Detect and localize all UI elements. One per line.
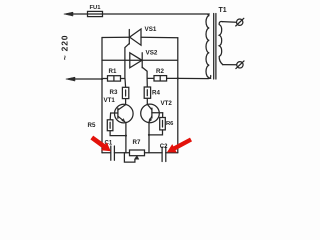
node R2 / primary junction bbox=[177, 77, 179, 79]
transformer T1 secondary winding bbox=[219, 21, 223, 64]
red pointer arrow at C1 bbox=[90, 136, 110, 152]
capacitor C1 bbox=[111, 146, 115, 160]
svg-text:VS2: VS2 bbox=[146, 50, 158, 57]
svg-text:T1: T1 bbox=[219, 7, 227, 14]
wire bottom left bus to C1 bbox=[102, 152, 111, 154]
svg-text:R2: R2 bbox=[156, 68, 164, 75]
node left bus mains junction bbox=[101, 78, 103, 80]
svg-text:VS1: VS1 bbox=[145, 26, 157, 33]
svg-text:R3: R3 bbox=[110, 89, 118, 96]
fuse FU1 bbox=[88, 11, 103, 16]
svg-text:VT2: VT2 bbox=[161, 100, 173, 107]
resistor R5 bbox=[107, 120, 126, 136]
wire VS1 anode/cathode rail bbox=[102, 36, 178, 39]
thyristor VS1 bbox=[125, 29, 141, 79]
node arrow to mains (bottom) bbox=[66, 77, 75, 81]
svg-text:R1: R1 bbox=[109, 68, 117, 75]
node arrow to mains (top) bbox=[64, 12, 73, 16]
wire right bus bbox=[177, 38, 179, 153]
potentiometer R7 bbox=[124, 150, 144, 162]
node output terminal top bbox=[236, 18, 244, 26]
thyristor VS2 bbox=[130, 53, 147, 79]
resistor R4 bbox=[144, 78, 150, 104]
wire second mains line bbox=[69, 78, 102, 80]
wire VS2 rail bbox=[102, 59, 177, 61]
svg-text:VT1: VT1 bbox=[104, 97, 116, 104]
svg-text:R6: R6 bbox=[166, 121, 174, 127]
node VT2 emitter junction bbox=[148, 134, 150, 136]
wire R2 to transformer primary bottom bbox=[178, 76, 211, 79]
wire secondary bottom lead bbox=[223, 64, 237, 66]
wire C2 to right bus bbox=[166, 152, 178, 154]
node VT1 emitter junction bbox=[125, 135, 127, 137]
transformer T1 core bbox=[214, 14, 216, 80]
resistor R1 bbox=[102, 76, 125, 81]
wire secondary top lead bbox=[223, 21, 237, 24]
svg-text:FU1: FU1 bbox=[90, 5, 102, 11]
transformer T1 primary winding bbox=[206, 14, 211, 78]
resistor R3 bbox=[122, 79, 128, 105]
red pointer arrow at C2 bbox=[167, 138, 192, 153]
resistor R6 bbox=[149, 118, 165, 135]
svg-text:R5: R5 bbox=[88, 122, 96, 129]
wire top mains line bbox=[67, 13, 209, 15]
svg-text:R4: R4 bbox=[152, 90, 160, 97]
svg-text:~ 220: ~ 220 bbox=[60, 35, 70, 61]
transistor VT2 bbox=[141, 104, 163, 153]
capacitor C2 bbox=[162, 147, 166, 162]
transistor VT1 bbox=[110, 104, 133, 153]
wire R7 to C2 bbox=[145, 152, 163, 154]
resistor R2 bbox=[147, 76, 178, 81]
wire left bus bbox=[101, 38, 103, 153]
svg-text:R7: R7 bbox=[133, 139, 141, 146]
wire C1 to R7 bbox=[114, 152, 129, 154]
svg-text:C2: C2 bbox=[160, 144, 168, 150]
node output terminal bottom bbox=[236, 61, 244, 69]
